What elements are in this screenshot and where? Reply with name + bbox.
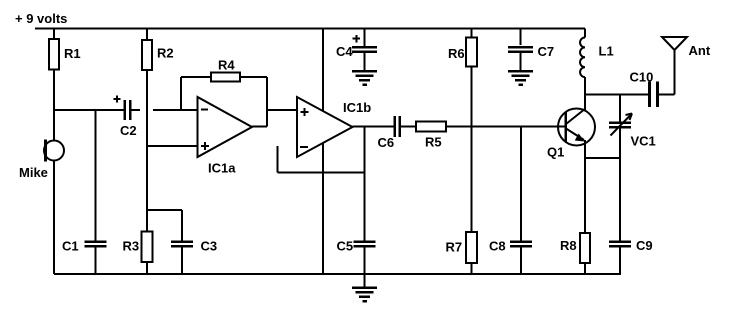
- svg-text:Ant: Ant: [689, 43, 711, 58]
- svg-text:IC1b: IC1b: [343, 100, 371, 115]
- svg-text:R3: R3: [123, 239, 140, 254]
- svg-text:VC1: VC1: [631, 134, 656, 149]
- svg-text:C3: C3: [201, 239, 218, 254]
- svg-text:IC1a: IC1a: [208, 161, 236, 176]
- svg-text:C5: C5: [337, 239, 354, 254]
- svg-text:R8: R8: [560, 238, 577, 253]
- svg-text:+ 9 volts: + 9 volts: [15, 11, 67, 26]
- svg-text:Mike: Mike: [19, 165, 48, 180]
- svg-text:C10: C10: [630, 70, 654, 85]
- svg-text:Q1: Q1: [547, 145, 564, 160]
- svg-text:R6: R6: [448, 46, 465, 61]
- svg-text:C8: C8: [489, 239, 506, 254]
- svg-text:R1: R1: [64, 46, 81, 61]
- svg-text:C4: C4: [336, 44, 353, 59]
- svg-text:C6: C6: [378, 135, 395, 150]
- svg-text:R5: R5: [425, 135, 442, 150]
- svg-text:C1: C1: [62, 239, 79, 254]
- svg-text:L1: L1: [599, 44, 614, 59]
- svg-text:C2: C2: [120, 123, 137, 138]
- svg-text:R4: R4: [218, 58, 235, 73]
- svg-text:C7: C7: [538, 44, 555, 59]
- svg-text:R7: R7: [446, 240, 463, 255]
- svg-text:R2: R2: [157, 46, 174, 61]
- svg-text:C9: C9: [636, 238, 653, 253]
